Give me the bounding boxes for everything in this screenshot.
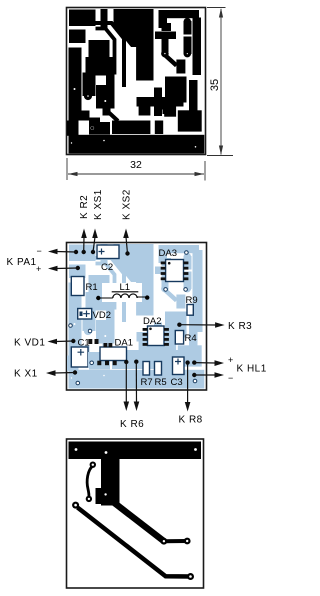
svg-text:C2: C2	[101, 262, 113, 273]
capacitor C3	[171, 357, 185, 388]
wire K R3	[179, 324, 216, 326]
diagonal trace A	[108, 498, 164, 541]
wire K XS2	[126, 237, 128, 254]
wire K VD1	[56, 340, 73, 343]
IC DA3	[159, 248, 189, 291]
inductor L1	[96, 282, 149, 302]
vias	[69, 324, 197, 385]
node K VD1 pad	[71, 339, 75, 343]
svg-text:C3: C3	[171, 377, 183, 388]
svg-text:−: −	[228, 373, 234, 383]
external wires with arrows	[55, 237, 217, 403]
external labels	[7, 189, 267, 430]
resistor R1	[71, 277, 97, 296]
wire K R6 b	[135, 362, 137, 402]
wire K R6 a	[125, 362, 127, 402]
node K R6 pads	[124, 360, 128, 364]
node K R3 pad	[177, 323, 181, 327]
svg-text:+: +	[228, 355, 234, 365]
svg-text:R4: R4	[185, 333, 197, 344]
svg-text:K R2: K R2	[79, 195, 90, 219]
top copper bar	[69, 442, 202, 460]
extra copper fills visible on component side	[117, 250, 203, 371]
node K XS2 pad	[125, 251, 129, 255]
svg-text:K R6: K R6	[120, 419, 144, 430]
node K R2 pad	[82, 250, 86, 254]
wire K R2	[83, 237, 85, 252]
node K HL1 plus pad	[192, 360, 196, 364]
svg-text:K PA1: K PA1	[7, 257, 37, 268]
resistor R4	[175, 331, 196, 345]
copper traces middle (light blue)	[68, 245, 204, 389]
node K PA1 minus pad	[74, 250, 78, 254]
node K HL1 minus pad	[192, 373, 196, 377]
resistor R9	[186, 295, 198, 315]
svg-text:32: 32	[130, 159, 142, 171]
svg-text:35: 35	[209, 79, 221, 91]
resistor R7	[141, 362, 153, 389]
wire K HL1 plus	[194, 362, 215, 364]
resistor R5	[155, 362, 167, 389]
diagonal trace B	[78, 508, 191, 577]
wire K HL1 minus	[194, 374, 215, 376]
diode VD2	[78, 309, 111, 322]
middle board components	[69, 245, 198, 388]
dimension 32 (horizontal)	[67, 158, 205, 181]
IC DA1	[88, 338, 133, 369]
svg-text:−: −	[37, 246, 43, 256]
wire K PA1 minus	[56, 251, 76, 254]
connection pads (dots)	[71, 250, 196, 377]
wire K X1	[55, 372, 76, 375]
board outline top PCB	[67, 8, 206, 155]
capacitor C2	[97, 245, 119, 273]
wide vertical trace	[101, 459, 120, 504]
svg-text:R7: R7	[141, 377, 153, 388]
copper traces top PCB	[68, 10, 204, 154]
node K PA1 plus pad	[76, 266, 80, 270]
board outline middle	[67, 243, 207, 391]
svg-text:R5: R5	[155, 377, 167, 388]
board outline bottom PCB	[67, 439, 204, 588]
wire K R8	[187, 363, 189, 403]
svg-text:+: +	[36, 264, 42, 274]
wire K XS1	[93, 237, 95, 252]
wire K PA1 plus	[56, 267, 78, 270]
svg-text:VD2: VD2	[93, 310, 111, 321]
svg-text:K VD1: K VD1	[14, 338, 45, 349]
svg-text:K R3: K R3	[228, 321, 252, 332]
small curved trace	[87, 466, 93, 497]
capacitor C1	[71, 338, 89, 368]
svg-text:K XS1: K XS1	[93, 189, 104, 220]
svg-text:K HL1: K HL1	[237, 364, 267, 375]
svg-text:K XS2: K XS2	[122, 189, 133, 220]
svg-text:K X1: K X1	[14, 369, 38, 380]
node K X1 pad	[73, 370, 77, 374]
svg-text:DA3: DA3	[159, 248, 177, 259]
svg-text:K R8: K R8	[179, 415, 203, 426]
dimension 35 (vertical)	[207, 8, 233, 156]
node K R8 pad	[185, 360, 189, 364]
svg-text:R1: R1	[86, 282, 98, 293]
IC DA2	[143, 316, 169, 346]
node K XS1 pad	[91, 250, 95, 254]
